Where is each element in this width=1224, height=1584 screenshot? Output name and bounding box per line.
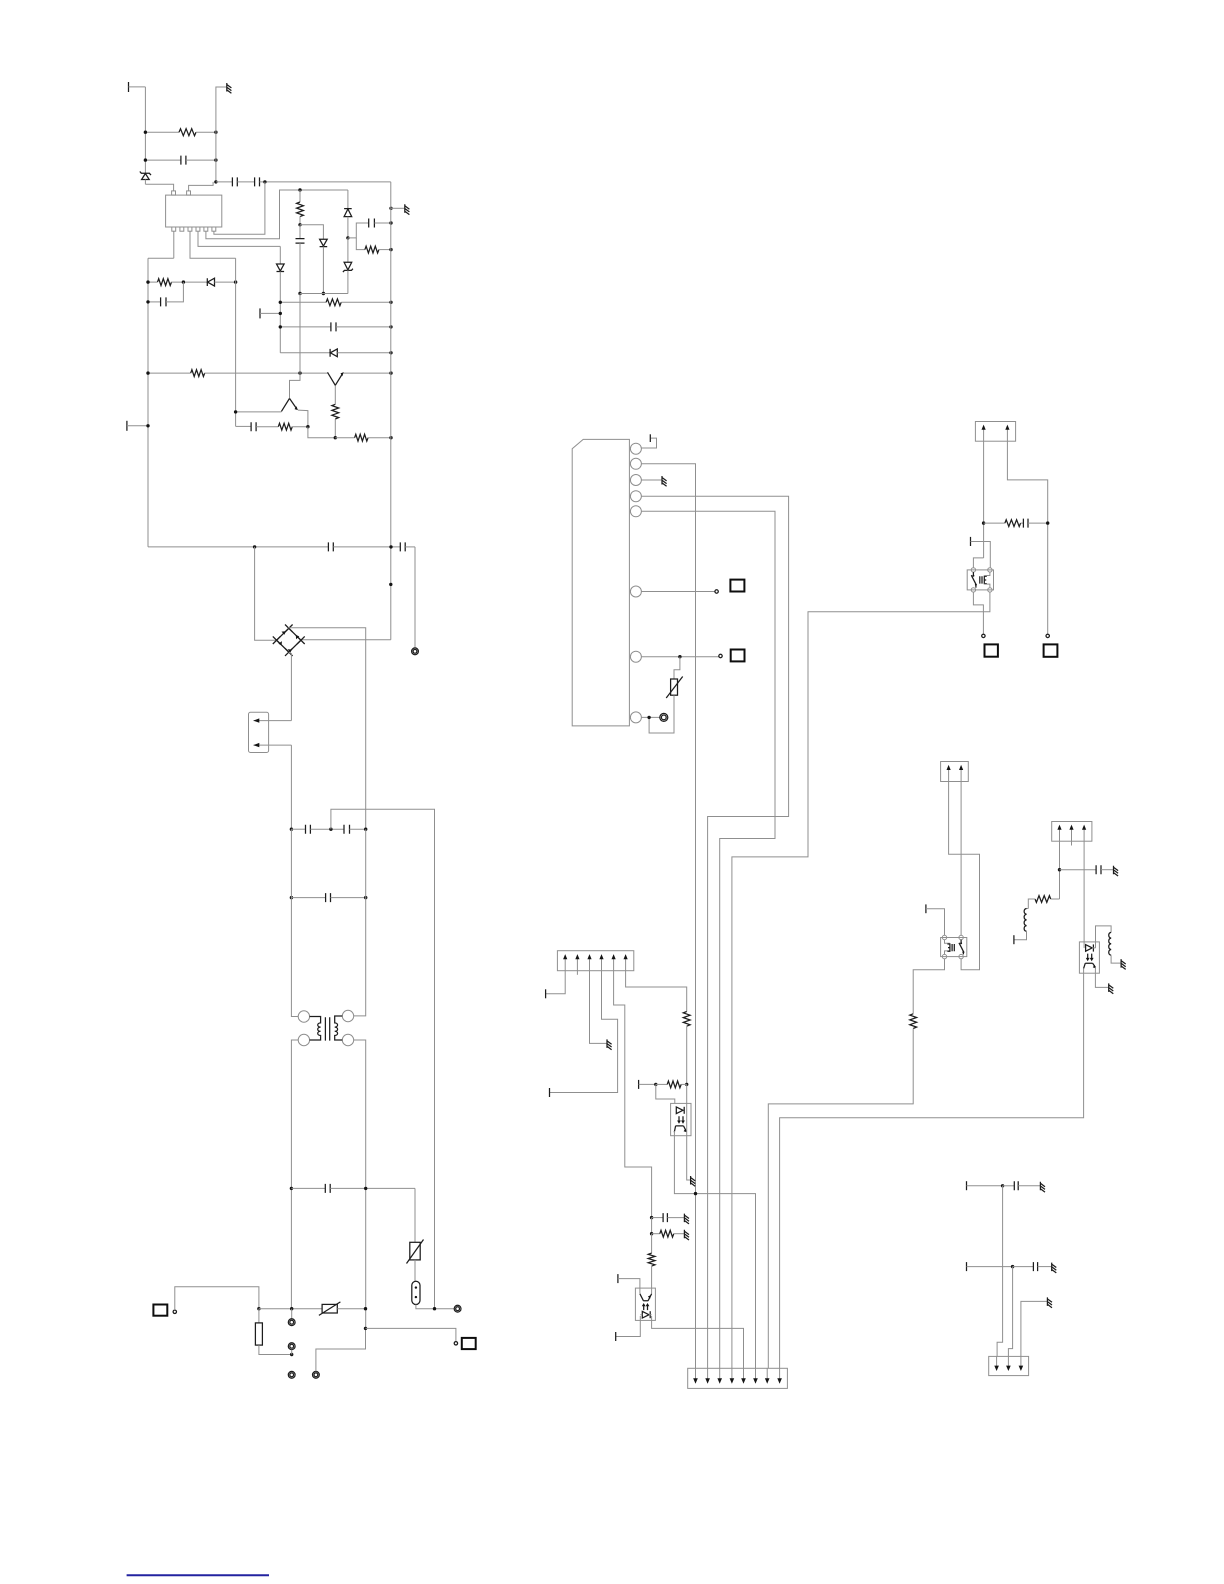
wire jog into opto U2	[656, 1084, 675, 1103]
arrow box A2	[941, 762, 969, 782]
wire V1 left input	[144, 87, 146, 173]
resistor R1	[144, 129, 218, 136]
terminal box SQ3	[730, 580, 744, 592]
terminal T3	[260, 308, 282, 318]
wire A4 pin4 to terminal T16	[550, 971, 618, 1097]
node dot rail 584	[389, 583, 392, 586]
footer blue rule	[127, 1574, 269, 1576]
arrow box A4	[557, 951, 633, 975]
transistor Q2	[328, 371, 393, 404]
wire to varistor VR1	[414, 1188, 416, 1242]
thermistor TH1	[649, 657, 683, 733]
wire rail to bridge right	[301, 639, 391, 641]
IC U1	[166, 191, 222, 231]
terminal ring T8	[288, 1371, 295, 1378]
relay K2	[941, 935, 967, 959]
terminal T20	[967, 1181, 1005, 1190]
wire right down to transformer	[354, 829, 366, 1016]
resistor R9 loop	[356, 238, 392, 253]
resistor R12	[1028, 896, 1059, 909]
terminal T21	[967, 1262, 1015, 1271]
neon lamp NE1	[412, 1281, 454, 1310]
capacitor C13 row898	[290, 893, 368, 902]
capacitor C19 to ground	[1013, 1262, 1057, 1273]
connector J2 body	[572, 439, 629, 726]
wire pin6 to o3	[641, 590, 718, 593]
ground G7 wire down to box	[1021, 1297, 1052, 1356]
wire V9 to bridge	[255, 547, 277, 640]
wire T9 up to node	[316, 1328, 366, 1371]
ground G2	[389, 204, 409, 214]
capacitor C6	[279, 322, 393, 331]
inductor L1	[1014, 909, 1028, 940]
zener D7 down	[343, 238, 353, 294]
terminal pin o2	[454, 1342, 457, 1345]
wire J1 lower to caps	[290, 745, 292, 829]
wire A1 left down	[983, 441, 985, 558]
diode D3 down on pin4 branch	[277, 246, 285, 352]
terminal T12	[971, 537, 991, 568]
wire pin5 bundle3	[641, 511, 775, 1368]
wire row1 down to box	[997, 1186, 1003, 1357]
wire A4 pin3 to ground G5	[590, 971, 612, 1050]
terminal box SQ5	[985, 644, 998, 656]
wire right rail V8	[390, 182, 392, 640]
terminal pin o6	[1046, 634, 1049, 637]
wire emitter row	[308, 427, 335, 438]
terminal box SQ1	[153, 1305, 167, 1316]
terminal ring T7	[288, 1343, 295, 1355]
wire A3 left down	[1059, 841, 1061, 899]
arrow box A6	[989, 1356, 1029, 1375]
wire C10 to lamp circle	[414, 547, 416, 648]
opto U4	[1079, 942, 1099, 973]
wire left rail V3	[147, 258, 149, 547]
wire transformer BL down	[291, 1040, 298, 1309]
wire A2 left to K2 BR	[949, 782, 980, 970]
terminal T18	[618, 1274, 640, 1294]
wire left down to transformer	[291, 829, 298, 1016]
arrow box A5	[688, 1368, 788, 1388]
capacitor C15	[1021, 519, 1050, 528]
terminal ring T6	[288, 1309, 295, 1326]
terminal box SQ4	[731, 650, 745, 662]
resistor R14 to ground	[650, 1218, 689, 1240]
wire K1 BR long run to bundle4	[732, 592, 990, 1368]
transistor Q1	[234, 373, 308, 427]
wire bridge top out	[289, 628, 366, 829]
wire from o1 to fuse node	[175, 1287, 259, 1310]
resistor R8 vertical	[297, 188, 304, 226]
wire transformer BR down	[354, 1040, 366, 1328]
varistor VR2	[319, 1302, 367, 1316]
terminal T17	[639, 1080, 658, 1089]
wire through opto cathode rail to ground G6	[687, 1084, 695, 1186]
resistor R2	[146, 279, 207, 286]
terminal pin o1	[173, 1310, 176, 1313]
bridge rectifier BR1	[273, 625, 305, 656]
capacitor C12	[344, 825, 367, 834]
terminal T10 at pin1	[641, 434, 656, 448]
wire A1 right down	[1007, 441, 1047, 634]
terminal T13	[926, 904, 945, 935]
ground G3 at pin3	[641, 476, 666, 486]
capacitor C8 loop	[348, 219, 393, 238]
arrow box A3	[1052, 822, 1092, 846]
capacitor C18 to ground	[1003, 1181, 1045, 1192]
wire V4 pin3 branch	[235, 258, 237, 426]
ground G1	[227, 83, 232, 93]
diode D5 down	[300, 225, 348, 295]
wire K1 TL feed	[973, 558, 983, 568]
wire pin1 down	[173, 231, 175, 258]
wire pin6 down	[214, 182, 265, 234]
wire pin4 down	[198, 231, 280, 246]
wire left rail top	[148, 257, 174, 259]
wire opto U4 TR to inductor L2	[1096, 926, 1112, 948]
wire pin3 down	[190, 231, 236, 258]
wire A4 pin6 chain down	[626, 971, 687, 1012]
transformer TR1	[298, 1010, 354, 1045]
capacitor C9 C10 bottom row	[148, 542, 415, 551]
resistor R5 vertical	[332, 404, 339, 439]
resistor R11 vertical	[768, 1014, 916, 1369]
wire long bypass to varistor chain	[331, 809, 435, 1308]
resistor R7	[279, 299, 393, 306]
opto U2	[671, 1103, 691, 1135]
capacitor C1	[144, 156, 218, 165]
capacitor C14 row1188	[290, 1184, 415, 1193]
capacitor C4	[146, 282, 183, 306]
terminal box SQ6	[1044, 644, 1058, 656]
wire opto U4 BL run to bundle8	[780, 968, 1084, 1368]
wire A3 right into opto	[1083, 841, 1085, 948]
terminal ring T9	[313, 1371, 320, 1378]
terminal box SQ2	[462, 1338, 476, 1349]
wire A4 pin5 chain down	[614, 971, 652, 1218]
terminal T14	[1013, 935, 1015, 944]
resistor R6	[335, 434, 392, 441]
terminal ring T5	[454, 1305, 461, 1312]
terminal T2 left	[127, 421, 150, 431]
varistor VR1	[407, 1240, 424, 1282]
wire right to SQ2	[366, 1328, 456, 1341]
capacitor C11	[290, 825, 344, 834]
wire A4 pin1 to terminal T15	[546, 971, 566, 999]
ground G4	[1121, 959, 1126, 969]
wire pin7 to o4	[641, 654, 722, 658]
wire pin5 down-up riser	[206, 190, 348, 239]
capacitor C16 to ground	[1058, 865, 1118, 876]
wire bridge bottom out	[289, 652, 292, 721]
terminal T1	[129, 82, 146, 92]
inductor L2	[1109, 932, 1121, 963]
node row 1308.7	[257, 1307, 322, 1310]
capacitor C7 vertical	[296, 225, 305, 373]
node dot 1328	[364, 1327, 367, 1330]
wire pin2 bundle1	[641, 464, 695, 1369]
connector J1	[249, 712, 292, 752]
wire opto U4 BR to ground	[1095, 967, 1113, 993]
capacitor C5 / resistor R4 row	[236, 422, 310, 431]
wire K2 BL run to bundle7	[913, 959, 944, 1014]
terminal pin o5	[982, 634, 985, 637]
resistor R16	[656, 1081, 687, 1088]
zener diode D1	[140, 172, 151, 185]
fuse F1	[255, 1309, 293, 1357]
node dot row1217 capacitor C17 to ground	[650, 1213, 689, 1224]
terminal ring T4	[412, 648, 419, 655]
relay K1	[967, 568, 993, 592]
wire K1 BL to o5	[973, 592, 983, 634]
node row 181.9 with capacitors C2 C3	[214, 177, 391, 186]
wire opto U2 BL run to bundle6	[674, 1131, 755, 1368]
wire pin4 bundle2	[641, 496, 788, 1368]
diode D6 up	[344, 190, 352, 240]
wire row2 down to box	[1008, 1267, 1012, 1357]
resistor R10	[982, 520, 1021, 527]
wire opto U3 BL to terminal T19	[616, 1316, 641, 1341]
wire pin2-top link	[189, 182, 214, 191]
wire A2 right to K2 TR	[960, 782, 962, 936]
opto U3	[635, 1288, 655, 1320]
diode D4 cathode-left row	[280, 349, 392, 357]
wire to IC pin top1	[145, 184, 173, 191]
resistor R15 vertical	[683, 1012, 690, 1087]
connector J2 pins	[630, 443, 641, 723]
resistor R13 vertical	[648, 1234, 655, 1294]
resistor R3	[146, 370, 327, 377]
arrow box A1	[975, 422, 1015, 442]
wire pin8 / ring T11	[641, 713, 667, 721]
wire V2	[216, 87, 227, 182]
diode D2 cathode-left	[207, 278, 237, 286]
wire opto U3 BR run to bundle5	[652, 1316, 744, 1368]
